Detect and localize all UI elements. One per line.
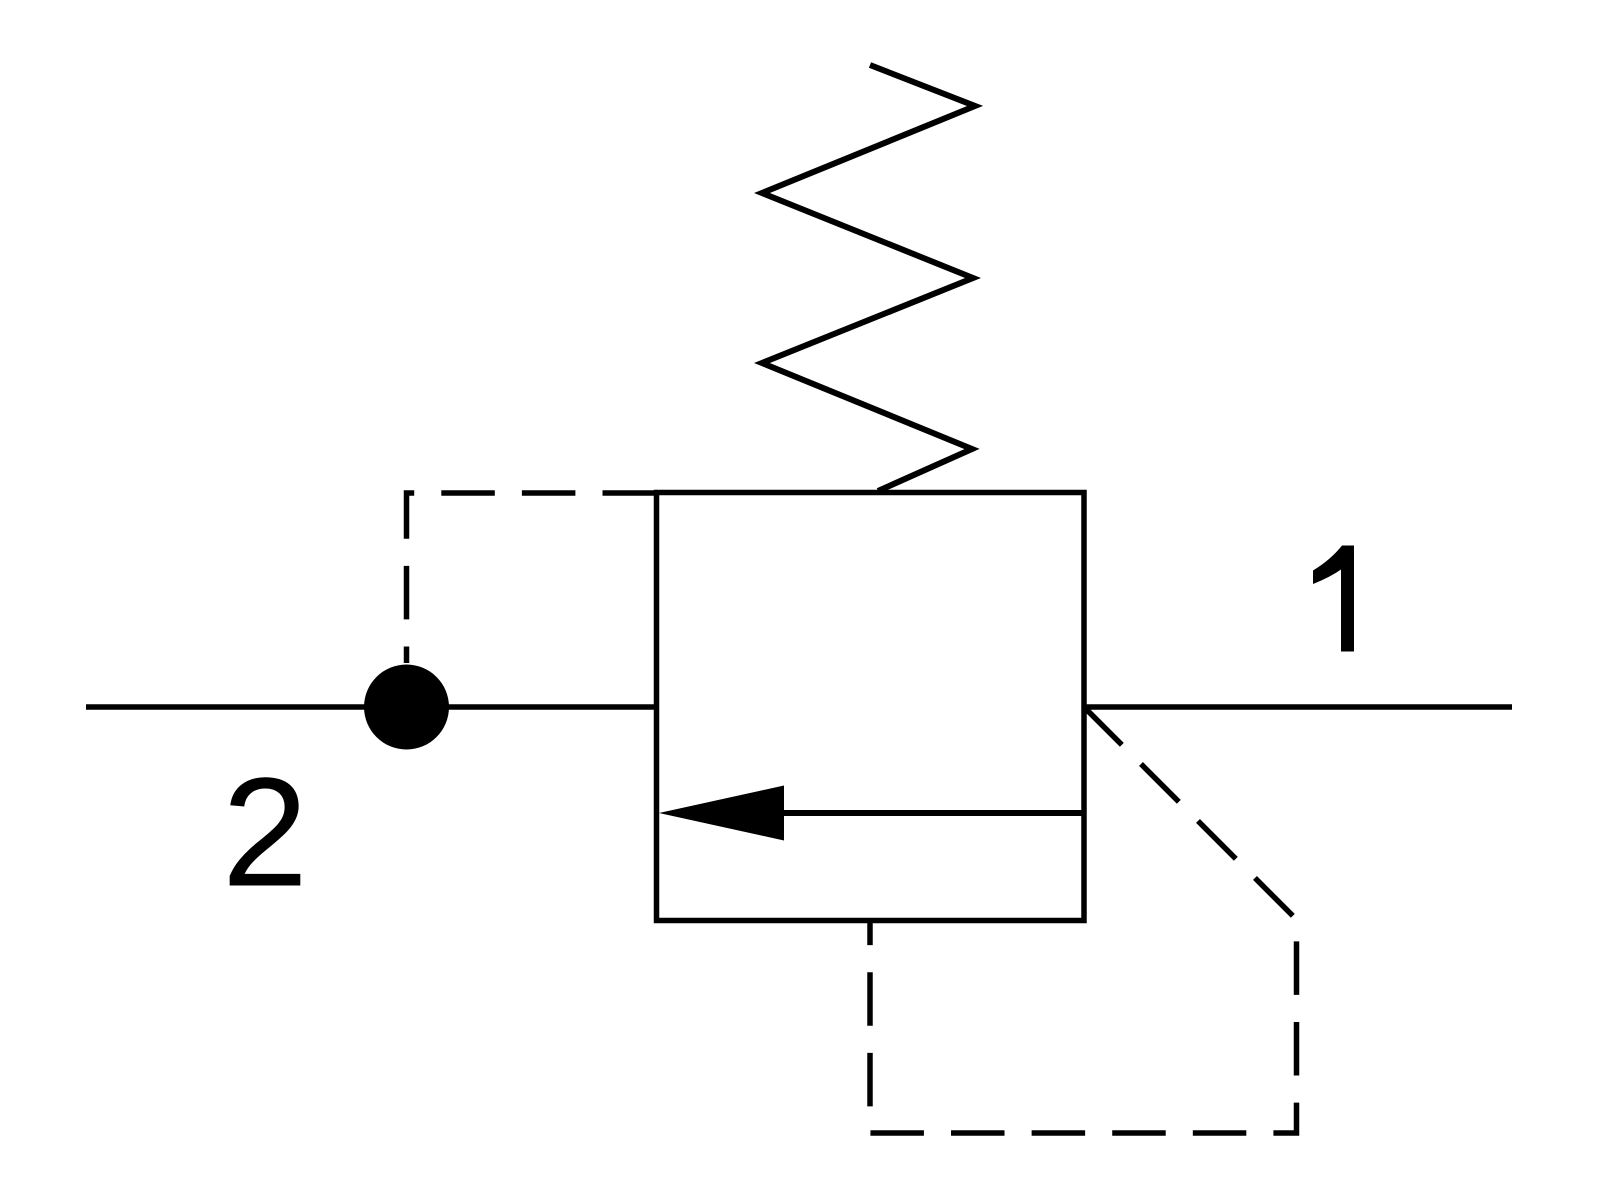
svg-text:2: 2 [222,746,308,919]
